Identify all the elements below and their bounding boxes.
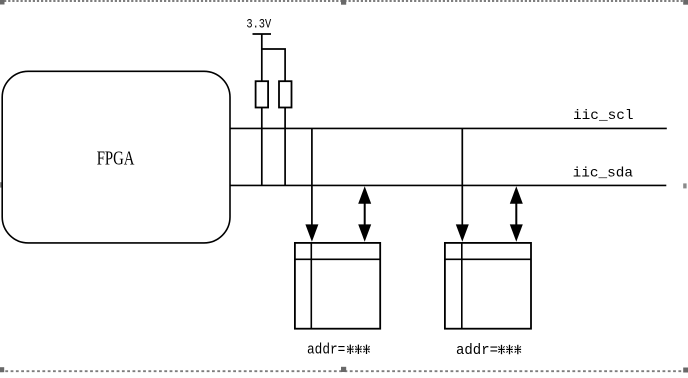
selection handle top-right [683, 0, 688, 5]
wire scl drop to device 2 (arrow down) [456, 128, 469, 241]
wire iic_scl bus [230, 127, 667, 129]
svg-text:3.3V: 3.3V [246, 16, 271, 31]
I2C device 2 box [445, 243, 531, 329]
bidirectional sda arrow device 1 [358, 186, 371, 242]
svg-text:iic_sda: iic_sda [573, 166, 633, 182]
selection handle bottom-right [683, 368, 688, 373]
selection handle bottom-left [0, 367, 4, 372]
selection handle bottom-middle [341, 367, 346, 372]
selection handle top-left [0, 0, 5, 5]
svg-text:addr=: addr= [456, 343, 498, 359]
wire resistor R2 lead down to sda bus [284, 108, 286, 187]
resistor R1 (pull-up) [256, 81, 269, 107]
wire iic_sda bus [230, 184, 667, 186]
bidirectional sda arrow device 2 [510, 186, 523, 242]
selection marquee bottom dashed border [0, 370, 688, 372]
wire resistor R1 lead down to sda bus [261, 108, 263, 187]
FPGA block [2, 71, 230, 243]
resistor R2 (pull-up) [279, 81, 292, 107]
power rail 3.3V bar [253, 33, 272, 35]
selection marquee top dashed border [0, 0, 688, 2]
selection handle top-middle [341, 0, 346, 5]
wire branch to resistor R2 [262, 49, 285, 81]
I2C device 1 box [295, 243, 380, 329]
svg-text:FPGA: FPGA [97, 147, 135, 169]
selection handle right-middle [683, 183, 686, 188]
svg-text:addr=: addr= [307, 343, 345, 359]
selection handle left-middle [0, 182, 4, 187]
wire scl drop to device 1 (arrow down) [305, 128, 318, 241]
wire from 3.3V rail down to resistor R1 [261, 34, 263, 81]
svg-text:iic_scl: iic_scl [573, 108, 634, 124]
